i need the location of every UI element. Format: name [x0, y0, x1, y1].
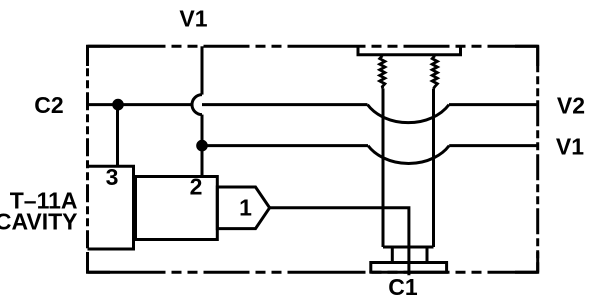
wire V2 line right segment: [449, 103, 538, 106]
wire from C2 junction down to box 3: [116, 105, 119, 167]
cavity boundary right side (phantom line): [536, 46, 539, 272]
svg-text:3: 3: [106, 164, 119, 190]
cavity boundary top side (phantom line): [88, 45, 538, 48]
saddle arc of V2 line under cartridge: [368, 105, 450, 123]
wire C2/V2 line middle segment: [202, 103, 368, 106]
cartridge neck: [392, 247, 427, 263]
svg-text:2: 2: [190, 174, 203, 200]
svg-text:C2: C2: [34, 92, 63, 118]
pilot box 3: [88, 166, 134, 249]
bottom flange of cartridge: [371, 263, 447, 273]
wire V1 vertical below hop to junction and box 2: [201, 115, 204, 177]
cartridge body walls and bottom: [383, 89, 434, 248]
junction dot on C2 line: [112, 99, 124, 111]
cavity boundary bottom side (phantom line): [88, 271, 538, 274]
cavity boundary left side (phantom line): [86, 46, 89, 272]
bottom flange base solid on boundary: [369, 271, 448, 274]
boundary corner solids: [88, 46, 538, 272]
pilot element 1 (arrow pentagon): [217, 187, 269, 229]
svg-text:V2: V2: [557, 93, 585, 119]
svg-text:V1: V1: [556, 134, 584, 160]
pilot box 2: [136, 177, 218, 240]
wire V1 line left segment: [202, 144, 368, 147]
left spring: [380, 56, 385, 89]
wire crossover hop on V1 vertical over C2 line: [192, 95, 202, 115]
wire C2 line left segment: [88, 103, 193, 106]
svg-text:1: 1: [239, 195, 252, 221]
wire V1 line right segment: [449, 144, 538, 147]
right spring: [432, 56, 437, 89]
wire V1 vertical from top boundary: [201, 46, 204, 94]
pilot line from element 1 to C1: [270, 208, 409, 275]
junction dot on V1 line: [196, 140, 208, 152]
svg-text:V1: V1: [179, 6, 207, 32]
svg-text:CAVITY: CAVITY: [0, 209, 78, 235]
top flange of cartridge: [358, 46, 461, 55]
saddle arc of V1 line under cartridge: [368, 146, 449, 164]
svg-text:C1: C1: [388, 274, 418, 300]
